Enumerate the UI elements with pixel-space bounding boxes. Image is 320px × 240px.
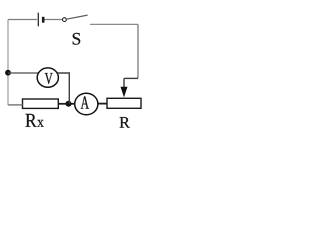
- wire top-right horizontal: [90, 23, 138, 25]
- label S: [73, 33, 80, 45]
- wire left vertical rail: [7, 20, 9, 106]
- wire R box to ammeter: [97, 103, 107, 105]
- wire voltmeter right then down to junction: [58, 73, 70, 104]
- slider arrow head: [121, 87, 128, 98]
- wire top-left horizontal: [8, 19, 37, 21]
- label Rx: [26, 114, 37, 127]
- wire slider horizontal: [124, 77, 138, 79]
- resistor Rx box: [23, 99, 59, 108]
- label R: [120, 117, 130, 127]
- junction dot bottom: [66, 101, 72, 107]
- wire right vertical: [137, 24, 139, 78]
- battery cell short thick plate: [42, 17, 45, 23]
- wire slider vertical stem: [123, 78, 125, 88]
- switch S pivot circle: [63, 18, 67, 22]
- wire Rx box left to left rail: [8, 104, 23, 106]
- wire junction dot to Rx box: [58, 103, 66, 105]
- junction dot left: [5, 70, 11, 76]
- battery cell long plate: [37, 13, 39, 27]
- label A: [81, 96, 89, 108]
- ammeter U1 circle: [75, 93, 98, 115]
- voltmeter U2 circle: [37, 68, 58, 87]
- wire junction to voltmeter: [8, 72, 38, 74]
- wire battery to switch: [45, 19, 63, 21]
- label V: [45, 73, 53, 84]
- switch S blade (open): [66, 15, 87, 19]
- wire ammeter to junction dot: [69, 103, 76, 105]
- rheostat R box: [107, 98, 141, 108]
- label Rx subscript x: [37, 120, 43, 127]
